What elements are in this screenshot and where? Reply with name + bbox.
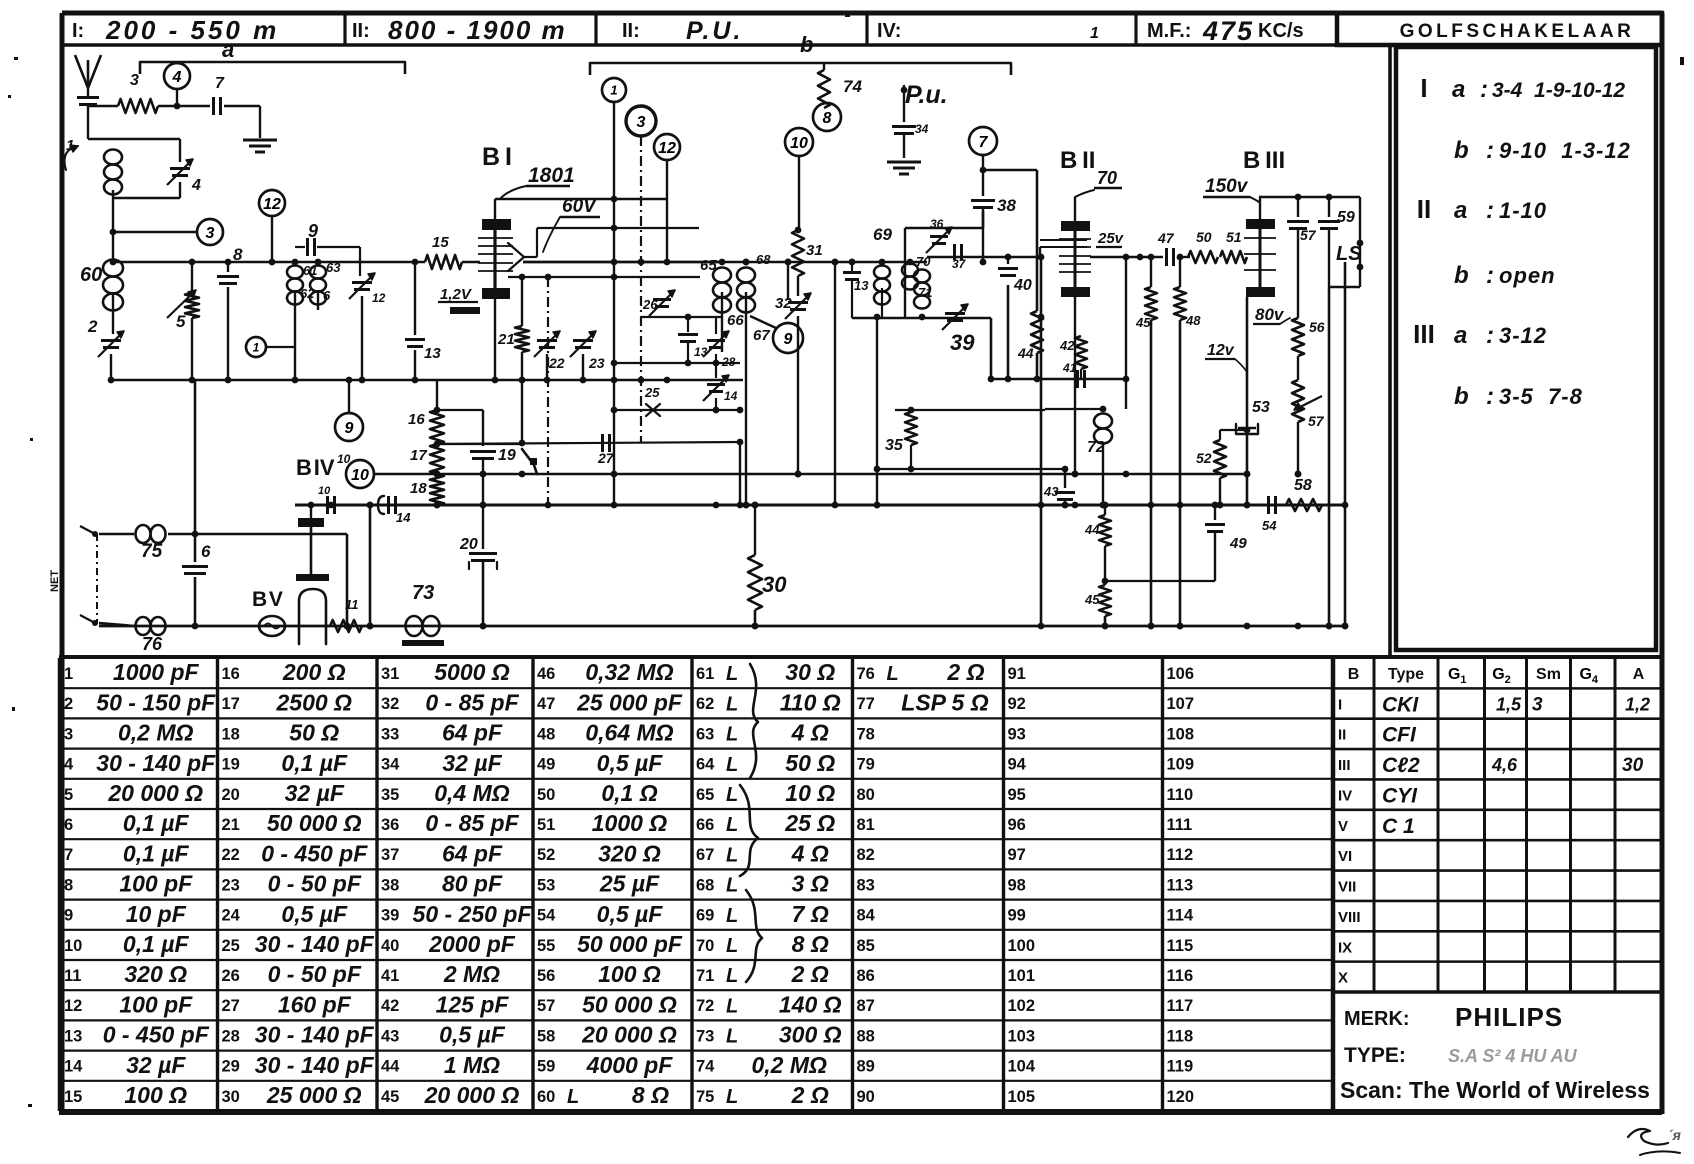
- svg-text:22: 22: [222, 846, 240, 864]
- svg-text:96: 96: [1008, 816, 1026, 834]
- svg-text:A: A: [1633, 666, 1645, 683]
- svg-text:320 Ω: 320 Ω: [598, 840, 661, 866]
- svg-text:10: 10: [337, 452, 351, 466]
- svg-text:L: L: [726, 935, 738, 957]
- svg-text:108: 108: [1167, 725, 1195, 743]
- svg-text:Type: Type: [1388, 666, 1424, 683]
- svg-text:150v: 150v: [1205, 176, 1249, 197]
- svg-text:115: 115: [1167, 937, 1194, 955]
- svg-text:18: 18: [410, 480, 427, 497]
- svg-text:800 - 1900 m: 800 - 1900 m: [388, 15, 567, 45]
- svg-text:36: 36: [930, 217, 944, 231]
- svg-text:66: 66: [696, 816, 714, 834]
- svg-text:58: 58: [1294, 477, 1312, 494]
- svg-text:3: 3: [1532, 694, 1543, 715]
- svg-text:91: 91: [1008, 665, 1026, 683]
- svg-text:26: 26: [642, 297, 658, 312]
- svg-text:25 000 pF: 25 000 pF: [576, 689, 683, 715]
- svg-text:II: II: [1338, 727, 1346, 744]
- svg-text:50 - 150 pF: 50 - 150 pF: [96, 689, 216, 715]
- svg-text:53: 53: [537, 876, 555, 894]
- svg-text:89: 89: [857, 1058, 875, 1076]
- svg-text:33: 33: [381, 725, 399, 743]
- svg-text:75: 75: [141, 541, 163, 562]
- svg-text:P.u.: P.u.: [905, 81, 948, 109]
- svg-text:71: 71: [918, 285, 932, 300]
- svg-text:119: 119: [1167, 1058, 1194, 1076]
- svg-text:30 - 140 pF: 30 - 140 pF: [96, 750, 216, 776]
- svg-text:82: 82: [857, 846, 875, 864]
- svg-text:3 Ω: 3 Ω: [792, 871, 829, 897]
- svg-text:16: 16: [408, 411, 425, 428]
- svg-text:37: 37: [381, 846, 399, 864]
- svg-text:36: 36: [381, 816, 399, 834]
- svg-text:0,5 µF: 0,5 µF: [597, 750, 664, 776]
- svg-text:62: 62: [696, 695, 714, 713]
- svg-text:9: 9: [64, 907, 73, 925]
- svg-text:42: 42: [1059, 338, 1075, 353]
- svg-text:L: L: [726, 905, 738, 927]
- svg-text:5000 Ω: 5000 Ω: [434, 659, 510, 685]
- svg-text:0,64 MΩ: 0,64 MΩ: [585, 720, 673, 746]
- svg-text:27: 27: [222, 997, 240, 1015]
- svg-text:53: 53: [1252, 399, 1270, 416]
- svg-text:30 Ω: 30 Ω: [785, 659, 835, 685]
- svg-text:71: 71: [696, 967, 714, 985]
- svg-text:64: 64: [696, 756, 715, 774]
- svg-text:60: 60: [537, 1088, 555, 1106]
- svg-text:VII: VII: [1338, 879, 1356, 896]
- svg-text:P.U.: P.U.: [686, 17, 743, 45]
- svg-text:54: 54: [1262, 518, 1277, 533]
- svg-text:1,2V: 1,2V: [440, 286, 473, 303]
- svg-text:´я: ´я: [1668, 1127, 1681, 1143]
- svg-text:IX: IX: [1338, 939, 1352, 956]
- svg-text:99: 99: [1008, 907, 1026, 925]
- svg-text:8: 8: [64, 876, 73, 894]
- svg-text:41: 41: [381, 967, 399, 985]
- svg-text:0 - 85 pF: 0 - 85 pF: [425, 689, 519, 715]
- svg-text:23: 23: [588, 355, 605, 371]
- svg-text:120: 120: [1167, 1088, 1195, 1106]
- svg-text:475: 475: [1202, 16, 1254, 46]
- svg-text:70: 70: [1097, 168, 1117, 188]
- svg-text:4: 4: [191, 177, 201, 194]
- svg-text:69: 69: [873, 225, 892, 244]
- svg-text:Sm: Sm: [1536, 666, 1561, 683]
- svg-text:9: 9: [345, 420, 354, 437]
- svg-text:100: 100: [1008, 937, 1036, 955]
- svg-text:109: 109: [1167, 756, 1195, 774]
- svg-text:77: 77: [857, 695, 875, 713]
- svg-text:50 000 Ω: 50 000 Ω: [267, 810, 362, 836]
- svg-text:8 Ω: 8 Ω: [632, 1082, 669, 1108]
- svg-text:103: 103: [1008, 1027, 1036, 1045]
- svg-text:95: 95: [1008, 786, 1026, 804]
- svg-text:50 000 pF: 50 000 pF: [577, 931, 683, 957]
- svg-text:49: 49: [1229, 535, 1247, 552]
- svg-text:50 Ω: 50 Ω: [289, 720, 339, 746]
- svg-text:L: L: [726, 784, 738, 806]
- svg-text:LSP 5 Ω: LSP 5 Ω: [901, 689, 988, 715]
- svg-text:30: 30: [762, 572, 787, 597]
- svg-text:51: 51: [537, 816, 555, 834]
- svg-text:50: 50: [537, 786, 555, 804]
- svg-text:42: 42: [381, 997, 399, 1015]
- svg-text:106: 106: [1167, 665, 1195, 683]
- svg-text:63: 63: [326, 260, 341, 275]
- svg-text:L: L: [726, 995, 738, 1017]
- svg-text:a: a: [1454, 197, 1467, 224]
- svg-text:60V: 60V: [562, 196, 597, 217]
- svg-text:118: 118: [1167, 1027, 1194, 1045]
- svg-text:a: a: [1452, 76, 1465, 103]
- svg-text:4 Ω: 4 Ω: [791, 840, 829, 866]
- svg-text:39: 39: [950, 330, 975, 355]
- svg-text:76: 76: [142, 634, 163, 654]
- svg-text:MERK:: MERK:: [1344, 1008, 1410, 1030]
- svg-text:320 Ω: 320 Ω: [124, 961, 187, 987]
- svg-text:b: b: [800, 32, 813, 57]
- svg-text:0,32 MΩ: 0,32 MΩ: [585, 659, 673, 685]
- svg-text:3-5 7-8: 3-5 7-8: [1499, 384, 1583, 409]
- svg-text:1 MΩ: 1 MΩ: [444, 1052, 500, 1078]
- svg-text:70: 70: [696, 937, 714, 955]
- svg-text:30 - 140 pF: 30 - 140 pF: [255, 1022, 375, 1048]
- svg-text:3: 3: [637, 114, 646, 131]
- svg-text:61: 61: [696, 665, 714, 683]
- svg-text:78: 78: [857, 725, 875, 743]
- svg-text:68: 68: [756, 252, 771, 267]
- svg-text:32 µF: 32 µF: [126, 1052, 186, 1078]
- svg-text:34: 34: [915, 122, 929, 136]
- svg-text:9: 9: [784, 331, 793, 348]
- svg-text:C 1: C 1: [1382, 815, 1415, 838]
- svg-text:VI: VI: [1338, 848, 1352, 865]
- svg-text:I:: I:: [72, 20, 84, 42]
- svg-text:B: B: [1348, 666, 1360, 683]
- svg-text:200 Ω: 200 Ω: [282, 659, 346, 685]
- svg-text:12: 12: [658, 140, 676, 157]
- svg-text:39: 39: [381, 907, 399, 925]
- svg-text:73: 73: [696, 1027, 714, 1045]
- svg-text:IV:: IV:: [877, 20, 901, 42]
- svg-text:84: 84: [857, 907, 876, 925]
- svg-text:38: 38: [997, 196, 1016, 215]
- svg-text:b: b: [1454, 137, 1469, 164]
- svg-text:13: 13: [694, 345, 708, 359]
- svg-text:32: 32: [775, 295, 792, 312]
- svg-text:22: 22: [548, 355, 565, 371]
- svg-text:7 Ω: 7 Ω: [792, 901, 829, 927]
- svg-text:PHILIPS: PHILIPS: [1455, 1002, 1563, 1032]
- svg-text:30 - 140 pF: 30 - 140 pF: [255, 931, 375, 957]
- svg-text:20: 20: [459, 536, 478, 553]
- svg-text:0,1 µF: 0,1 µF: [281, 750, 348, 776]
- svg-text:3: 3: [206, 225, 215, 242]
- svg-text:52: 52: [537, 846, 555, 864]
- svg-text:0,1 Ω: 0,1 Ω: [601, 780, 657, 806]
- svg-text:64 pF: 64 pF: [442, 840, 503, 866]
- svg-text:L: L: [567, 1086, 579, 1108]
- svg-text:8 Ω: 8 Ω: [792, 931, 829, 957]
- svg-text:56: 56: [537, 967, 555, 985]
- svg-text:111: 111: [1167, 816, 1193, 834]
- svg-text:L: L: [726, 693, 738, 715]
- svg-text:113: 113: [1167, 876, 1194, 894]
- svg-text::: :: [1486, 262, 1494, 289]
- svg-text:79: 79: [857, 756, 875, 774]
- svg-text:117: 117: [1167, 997, 1194, 1015]
- svg-text:6: 6: [323, 288, 331, 303]
- svg-text:72: 72: [696, 997, 714, 1015]
- svg-text:90: 90: [857, 1088, 875, 1106]
- svg-text:11: 11: [345, 597, 359, 612]
- svg-text:32: 32: [381, 695, 399, 713]
- svg-text:GOLFSCHAKELAAR: GOLFSCHAKELAAR: [1400, 21, 1635, 42]
- svg-text:300 Ω: 300 Ω: [779, 1022, 842, 1048]
- svg-text:Cℓ2: Cℓ2: [1382, 754, 1420, 777]
- svg-text:116: 116: [1167, 967, 1194, 985]
- svg-text:I: I: [1420, 73, 1427, 103]
- svg-text:29: 29: [222, 1058, 240, 1076]
- svg-text:KC/s: KC/s: [1258, 20, 1304, 42]
- svg-text:112: 112: [1167, 846, 1194, 864]
- svg-text:60: 60: [80, 264, 102, 286]
- svg-text::: :: [1486, 137, 1494, 164]
- svg-text:S.A S² 4 HU AU: S.A S² 4 HU AU: [1448, 1046, 1578, 1066]
- svg-text:100 Ω: 100 Ω: [124, 1082, 187, 1108]
- svg-text:74: 74: [843, 77, 862, 96]
- svg-text:54: 54: [537, 907, 556, 925]
- svg-text:75: 75: [696, 1088, 714, 1106]
- svg-text:2000 pF: 2000 pF: [428, 931, 516, 957]
- svg-text:21: 21: [222, 816, 240, 834]
- svg-text:160 pF: 160 pF: [278, 991, 352, 1017]
- svg-text:73: 73: [412, 582, 434, 604]
- svg-text:110: 110: [1167, 786, 1194, 804]
- svg-text:37: 37: [952, 257, 967, 271]
- svg-text:4,6: 4,6: [1491, 755, 1518, 775]
- svg-text:X: X: [1338, 970, 1348, 987]
- svg-text:25 000 Ω: 25 000 Ω: [266, 1082, 362, 1108]
- svg-text:7: 7: [64, 846, 73, 864]
- svg-text:32 µF: 32 µF: [442, 750, 502, 776]
- svg-text:20 000 Ω: 20 000 Ω: [424, 1082, 520, 1108]
- svg-text:55: 55: [537, 937, 555, 955]
- svg-text:10: 10: [790, 135, 808, 152]
- svg-text:35: 35: [381, 786, 399, 804]
- svg-text:0,1 µF: 0,1 µF: [123, 810, 190, 836]
- svg-text:28: 28: [222, 1027, 240, 1045]
- svg-text:57: 57: [1308, 413, 1325, 429]
- svg-text:19: 19: [498, 447, 516, 464]
- svg-text:5: 5: [176, 312, 186, 331]
- svg-text:35: 35: [885, 437, 904, 454]
- svg-text:66: 66: [727, 312, 744, 329]
- svg-text::: :: [1486, 383, 1494, 410]
- svg-text:68: 68: [696, 876, 714, 894]
- svg-text:3: 3: [130, 72, 139, 89]
- svg-text:16: 16: [222, 665, 240, 683]
- svg-text:2 Ω: 2 Ω: [791, 961, 829, 987]
- svg-text:104: 104: [1008, 1058, 1036, 1076]
- svg-text:50: 50: [1196, 229, 1212, 245]
- svg-text:5: 5: [64, 786, 73, 804]
- svg-text:43: 43: [1043, 484, 1059, 499]
- svg-text:B III: B III: [1243, 147, 1285, 174]
- svg-text:1,5: 1,5: [1496, 694, 1522, 714]
- svg-text:34: 34: [381, 756, 400, 774]
- svg-text:LS: LS: [1336, 243, 1362, 265]
- svg-text:B IV: B IV: [296, 455, 335, 480]
- svg-text:4: 4: [64, 756, 74, 774]
- svg-text:6: 6: [64, 816, 73, 834]
- svg-text:13: 13: [424, 345, 441, 362]
- svg-text:48: 48: [537, 725, 555, 743]
- svg-text:4000 pF: 4000 pF: [586, 1052, 674, 1078]
- svg-text:25: 25: [222, 937, 240, 955]
- svg-text:44: 44: [1084, 522, 1100, 537]
- svg-text:25: 25: [644, 385, 660, 400]
- svg-text:38: 38: [381, 876, 399, 894]
- svg-text:125 pF: 125 pF: [436, 991, 510, 1017]
- svg-text:23: 23: [222, 876, 240, 894]
- svg-text:27: 27: [597, 450, 615, 466]
- svg-text:2 MΩ: 2 MΩ: [443, 961, 500, 987]
- svg-text:200 - 550 m: 200 - 550 m: [105, 15, 279, 45]
- svg-text:IV: IV: [1338, 787, 1352, 804]
- svg-text:51: 51: [1226, 229, 1242, 245]
- svg-text:a: a: [1454, 322, 1467, 349]
- svg-text:14: 14: [724, 389, 738, 403]
- svg-text:3-4 1-9-10-12: 3-4 1-9-10-12: [1492, 79, 1625, 102]
- svg-text:17: 17: [410, 447, 427, 464]
- svg-text:47: 47: [537, 695, 555, 713]
- svg-text:83: 83: [857, 876, 875, 894]
- svg-text:B I: B I: [482, 143, 512, 171]
- svg-text:2: 2: [87, 317, 98, 336]
- svg-text:86: 86: [857, 967, 875, 985]
- svg-text:0,5 µF: 0,5 µF: [439, 1022, 506, 1048]
- svg-text:13: 13: [854, 278, 869, 293]
- svg-text:L: L: [726, 875, 738, 897]
- svg-text:10 pF: 10 pF: [126, 901, 187, 927]
- svg-text:1: 1: [1090, 25, 1099, 42]
- svg-text:58: 58: [537, 1027, 555, 1045]
- svg-text:CFI: CFI: [1382, 724, 1417, 747]
- svg-text:30: 30: [1622, 755, 1644, 776]
- svg-text:25v: 25v: [1097, 230, 1125, 247]
- svg-text:31: 31: [381, 665, 399, 683]
- svg-text:1000 Ω: 1000 Ω: [592, 810, 668, 836]
- svg-text:7: 7: [979, 134, 989, 151]
- svg-text:Scan: The World of Wireless: Scan: The World of Wireless: [1340, 1077, 1650, 1103]
- svg-text:63: 63: [696, 725, 714, 743]
- svg-text:31: 31: [806, 242, 823, 259]
- svg-text:2: 2: [64, 695, 73, 713]
- svg-text:9-10 1-3-12: 9-10 1-3-12: [1499, 138, 1631, 163]
- svg-text:10 Ω: 10 Ω: [785, 780, 835, 806]
- svg-text:81: 81: [857, 816, 875, 834]
- svg-text:0,5 µF: 0,5 µF: [597, 901, 664, 927]
- svg-text:L: L: [726, 965, 738, 987]
- svg-text:1: 1: [610, 83, 617, 98]
- svg-text:10: 10: [351, 467, 369, 484]
- svg-text:17: 17: [222, 695, 240, 713]
- svg-text:0,1 µF: 0,1 µF: [123, 931, 190, 957]
- svg-text:100 pF: 100 pF: [119, 991, 193, 1017]
- svg-text:26: 26: [222, 967, 240, 985]
- svg-text:24: 24: [222, 907, 241, 925]
- svg-text:59: 59: [537, 1058, 555, 1076]
- svg-text:L: L: [726, 1086, 738, 1108]
- svg-text:0 - 85 pF: 0 - 85 pF: [425, 810, 519, 836]
- svg-text:50 Ω: 50 Ω: [785, 750, 835, 776]
- svg-text:98: 98: [1008, 876, 1026, 894]
- svg-text:0,4 MΩ: 0,4 MΩ: [434, 780, 510, 806]
- svg-text:40: 40: [381, 937, 399, 955]
- svg-text:0 - 50 pF: 0 - 50 pF: [268, 961, 362, 987]
- svg-text:14: 14: [396, 510, 411, 525]
- svg-text:VIII: VIII: [1338, 909, 1361, 926]
- svg-text:1000 pF: 1000 pF: [113, 659, 200, 685]
- svg-text:1-10: 1-10: [1499, 198, 1547, 223]
- svg-text:107: 107: [1167, 695, 1195, 713]
- svg-text:45: 45: [1135, 315, 1151, 330]
- svg-text:101: 101: [1008, 967, 1036, 985]
- svg-text:20 000 Ω: 20 000 Ω: [581, 1022, 677, 1048]
- svg-text:3-12: 3-12: [1499, 323, 1547, 348]
- svg-text:L: L: [726, 1026, 738, 1048]
- svg-text:b: b: [1454, 262, 1469, 289]
- svg-text:18: 18: [222, 725, 240, 743]
- svg-text:44: 44: [1017, 345, 1034, 361]
- svg-text:6: 6: [201, 542, 211, 561]
- svg-text:3: 3: [64, 725, 73, 743]
- svg-text:11: 11: [64, 967, 81, 985]
- svg-text:L: L: [726, 844, 738, 866]
- svg-text:2 Ω: 2 Ω: [946, 659, 984, 685]
- svg-text:140 Ω: 140 Ω: [779, 991, 842, 1017]
- svg-text:L: L: [726, 724, 738, 746]
- svg-text:0,5 µF: 0,5 µF: [281, 901, 348, 927]
- svg-text:CYI: CYI: [1382, 784, 1418, 807]
- svg-text:M.F.:: M.F.:: [1147, 20, 1191, 42]
- svg-text:2500 Ω: 2500 Ω: [275, 689, 352, 715]
- svg-text:102: 102: [1008, 997, 1036, 1015]
- svg-text:67: 67: [753, 327, 770, 344]
- svg-text:7: 7: [215, 75, 225, 92]
- svg-text:85: 85: [857, 937, 875, 955]
- svg-text:94: 94: [1008, 756, 1027, 774]
- svg-text:93: 93: [1008, 725, 1026, 743]
- svg-text:50 - 250 pF: 50 - 250 pF: [413, 901, 533, 927]
- svg-text:0,1 µF: 0,1 µF: [123, 840, 190, 866]
- svg-text:105: 105: [1008, 1088, 1036, 1106]
- svg-text:88: 88: [857, 1027, 875, 1045]
- svg-text:49: 49: [537, 756, 555, 774]
- svg-text:L: L: [726, 814, 738, 836]
- svg-text:open: open: [1499, 263, 1556, 288]
- svg-text:B V: B V: [252, 588, 283, 611]
- svg-text:CKI: CKI: [1382, 693, 1419, 716]
- svg-text:15: 15: [64, 1088, 82, 1106]
- svg-text:1,2: 1,2: [1625, 694, 1650, 714]
- svg-text::: :: [1480, 76, 1488, 103]
- svg-text:10: 10: [318, 485, 331, 497]
- svg-text:46: 46: [537, 665, 555, 683]
